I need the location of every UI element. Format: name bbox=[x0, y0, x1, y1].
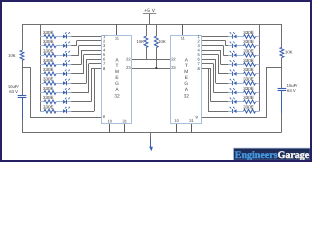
svg-text:330E: 330E bbox=[243, 95, 254, 100]
svg-text:E: E bbox=[185, 75, 188, 81]
svg-text:330E: 330E bbox=[243, 67, 254, 72]
svg-text:22: 22 bbox=[126, 57, 131, 62]
svg-text:330E: 330E bbox=[43, 49, 54, 54]
svg-text:EngineersGarage: EngineersGarage bbox=[235, 150, 310, 161]
svg-text:330E: 330E bbox=[243, 30, 254, 35]
svg-text:10K: 10K bbox=[137, 39, 145, 44]
svg-text:M: M bbox=[184, 69, 188, 75]
svg-text:23: 23 bbox=[171, 65, 176, 70]
svg-text:330E: 330E bbox=[243, 86, 254, 91]
svg-text:E: E bbox=[115, 75, 118, 81]
svg-text:10: 10 bbox=[174, 118, 179, 123]
svg-text:T: T bbox=[185, 63, 188, 69]
svg-text:10K: 10K bbox=[285, 50, 293, 55]
svg-text:32: 32 bbox=[114, 94, 120, 100]
svg-text:10K: 10K bbox=[8, 53, 16, 58]
svg-text:330E: 330E bbox=[243, 105, 254, 110]
svg-text:G: G bbox=[184, 81, 188, 87]
svg-text:M: M bbox=[115, 69, 119, 75]
svg-text:31: 31 bbox=[189, 118, 194, 123]
svg-text:330E: 330E bbox=[43, 95, 54, 100]
svg-text:23: 23 bbox=[126, 65, 131, 70]
svg-text:330E: 330E bbox=[243, 77, 254, 82]
svg-text:330E: 330E bbox=[43, 77, 54, 82]
svg-text:330E: 330E bbox=[43, 39, 54, 44]
svg-text:T: T bbox=[116, 63, 119, 69]
svg-text:330E: 330E bbox=[43, 67, 54, 72]
svg-text:330E: 330E bbox=[43, 30, 54, 35]
svg-text:330E: 330E bbox=[43, 86, 54, 91]
svg-text:330E: 330E bbox=[243, 58, 254, 63]
svg-text:22: 22 bbox=[171, 57, 176, 62]
svg-text:10K: 10K bbox=[158, 39, 166, 44]
svg-text:G: G bbox=[115, 81, 119, 87]
svg-text:32: 32 bbox=[184, 94, 190, 100]
svg-text:330E: 330E bbox=[43, 58, 54, 63]
svg-text:63 V: 63 V bbox=[9, 89, 18, 94]
svg-text:31: 31 bbox=[122, 118, 127, 123]
svg-text:10: 10 bbox=[108, 118, 113, 123]
svg-text:63 V: 63 V bbox=[287, 88, 296, 93]
svg-text:330E: 330E bbox=[243, 39, 254, 44]
svg-text:330E: 330E bbox=[243, 49, 254, 54]
svg-text:330E: 330E bbox=[43, 105, 54, 110]
